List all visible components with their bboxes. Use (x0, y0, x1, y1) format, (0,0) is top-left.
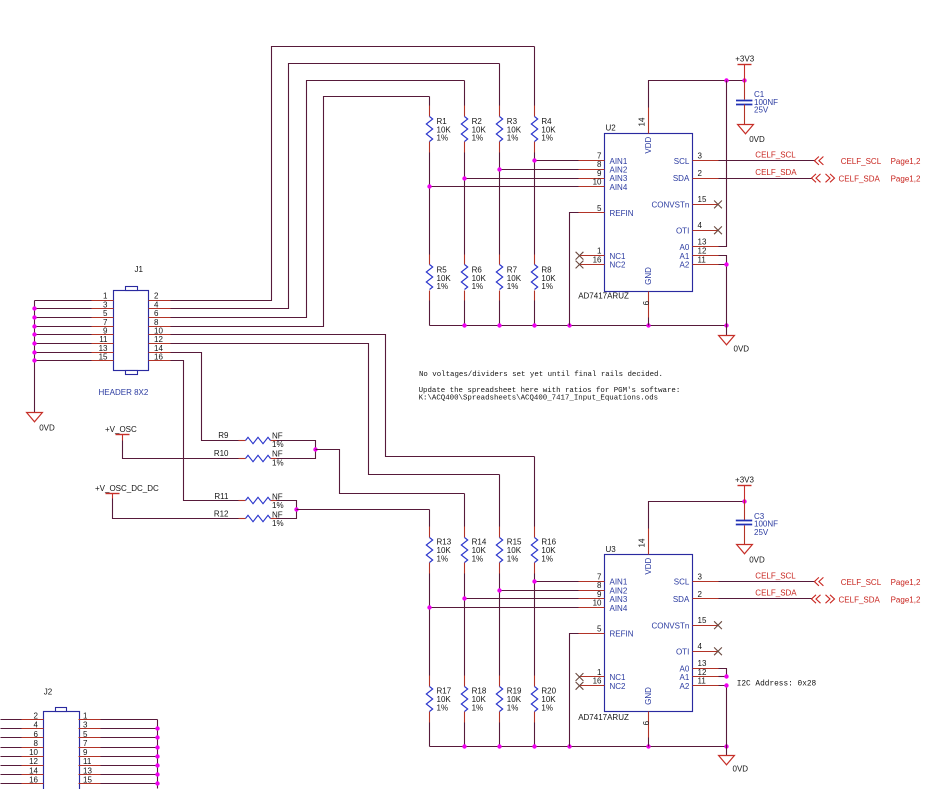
svg-text:8: 8 (597, 581, 602, 590)
junction node R11/R12 (294, 507, 298, 511)
wire divider tap to U2 AIN3 (465, 178, 579, 180)
U3 pin 10 AIN4 (579, 599, 628, 613)
junction node U3 AIN3 tap (462, 596, 466, 600)
U3 pin 8 AIN2 (579, 581, 628, 595)
U3 pin 1 NC1 (no connect) (576, 668, 626, 682)
svg-text:A0: A0 (680, 243, 690, 252)
resistor R17 10K 1% (426, 676, 451, 723)
svg-text:3: 3 (698, 572, 703, 581)
power symbol +V_OSC (105, 425, 137, 441)
svg-text:3: 3 (698, 152, 703, 161)
J1 pin 2 stub (149, 292, 171, 301)
J2 pin 9 stub (79, 748, 101, 757)
junction node U2 AIN1 tap (532, 158, 536, 162)
wire divider tap to U2 AIN2 (500, 169, 579, 171)
J1 pin 13 stub (92, 344, 114, 353)
svg-text:R11: R11 (214, 492, 229, 501)
U3 pin 7 AIN1 (579, 572, 628, 586)
svg-text:0VD: 0VD (734, 344, 750, 353)
svg-text:AD7417ARUZ: AD7417ARUZ (578, 292, 629, 301)
svg-text:1: 1 (597, 668, 602, 677)
svg-text:OTI: OTI (676, 226, 689, 235)
wire U3 VDD to +3V3 (649, 502, 745, 529)
svg-text:0VD: 0VD (733, 764, 749, 773)
svg-text:Page1,2: Page1,2 (891, 157, 921, 166)
svg-text:10: 10 (593, 178, 602, 187)
wire R10 right to join (277, 450, 316, 459)
J1 pin 3 stub (92, 300, 114, 309)
resistor R6 10K 1% (461, 255, 486, 301)
svg-text:5: 5 (597, 204, 602, 213)
wire U2 A2 to 0V rail (719, 265, 727, 326)
J2 pin 14 stub (22, 766, 44, 775)
svg-text:16: 16 (29, 775, 38, 784)
svg-text:6: 6 (642, 720, 651, 725)
U2 pin 4 OTI (no connect) (676, 221, 722, 235)
J2 pin 2 stub (22, 712, 44, 721)
resistor R16 10K 1% (531, 527, 556, 574)
U2 pin 9 AIN3 (579, 169, 628, 183)
wire R14/R18 column (464, 494, 466, 747)
wire J2 right bus vertical (157, 720, 159, 789)
svg-text:J2: J2 (44, 687, 53, 696)
wire R16/R20 column (534, 457, 536, 747)
svg-text:CELF_SDA: CELF_SDA (755, 168, 797, 177)
J1 pin 11 stub (92, 335, 114, 344)
wire divider tap to U3 AIN1 (535, 581, 579, 583)
svg-text:U2: U2 (606, 123, 617, 132)
J1 pin 1 stub (92, 292, 114, 301)
svg-text:1%: 1% (507, 282, 519, 291)
U3 pin 13 A0 (680, 659, 719, 673)
U3 pin 11 A2 (680, 677, 719, 691)
svg-text:25V: 25V (754, 528, 769, 537)
svg-text:AIN4: AIN4 (610, 183, 628, 192)
wire divider tap to U3 AIN3 (465, 598, 579, 600)
svg-text:1%: 1% (472, 554, 484, 563)
svg-text:15: 15 (83, 775, 92, 784)
wire top 0V rail (430, 325, 727, 327)
junction node U2 AIN4 tap (427, 184, 431, 188)
svg-text:GND: GND (644, 267, 653, 285)
svg-text:4: 4 (698, 642, 703, 651)
svg-text:SDA: SDA (673, 174, 690, 183)
wire R1/R5 column (429, 97, 431, 326)
svg-text:1%: 1% (272, 519, 284, 528)
wire J1 pin 6 to R2 column (171, 81, 465, 318)
wire J1 pin 4 to R3 column (171, 64, 500, 309)
junction dots on bottom 0V rail (462, 744, 728, 748)
wire U2 A1 to A2 junction (719, 256, 727, 265)
wire J2 left pins off page (1, 720, 22, 784)
svg-text:14: 14 (638, 117, 647, 126)
svg-text:CELF_SCL: CELF_SCL (755, 150, 796, 159)
U2 pin 1 NC1 (no connect) (576, 247, 626, 261)
svg-text:U3: U3 (606, 545, 617, 554)
junction node U3 AIN4 tap (427, 605, 431, 609)
svg-text:NC1: NC1 (610, 673, 627, 682)
J1 pin 15 stub (92, 353, 114, 362)
svg-text:AIN2: AIN2 (610, 166, 628, 175)
power symbol +3V3 (bottom) (735, 476, 754, 502)
off-page connector CELF_SDA (top) (812, 174, 921, 184)
svg-text:0VD: 0VD (749, 135, 765, 144)
ground 0VD below U3 (719, 747, 749, 774)
svg-text:13: 13 (99, 344, 108, 353)
svg-text:15: 15 (698, 195, 707, 204)
U2 pin 15 CONVSTn (no connect) (652, 195, 722, 209)
svg-text:1%: 1% (507, 554, 519, 563)
wire U2 GND pin to 0V rail (648, 318, 650, 326)
wire R11 right to join (277, 501, 297, 510)
U2 pin 10 AIN4 (579, 178, 628, 192)
wire divider tap to U3 AIN2 (500, 590, 579, 592)
svg-text:2: 2 (698, 590, 703, 599)
junction node U2 AIN2 tap (497, 167, 501, 171)
svg-text:9: 9 (597, 169, 602, 178)
U3 pin 12 A1 (680, 668, 719, 682)
J1 pin 4 stub (149, 300, 171, 309)
off-page connector CELF_SDA (bottom) (812, 595, 921, 605)
J2 pin 13 stub (79, 766, 101, 775)
svg-text:VDD: VDD (644, 558, 653, 575)
resistor R8 10K 1% (531, 255, 556, 301)
wire R15/R19 column (499, 475, 501, 747)
J1 pin 16 stub (149, 353, 171, 362)
svg-text:11: 11 (698, 255, 707, 264)
svg-text:1%: 1% (437, 704, 449, 713)
svg-text:12: 12 (698, 668, 707, 677)
wire U3 SDA net CELF_SDA (719, 598, 812, 600)
svg-text:AIN1: AIN1 (610, 157, 628, 166)
wire U3 A2 to 0V rail (719, 686, 727, 747)
svg-text:SCL: SCL (674, 157, 690, 166)
junction dots on J1 ground bus (32, 306, 36, 362)
svg-text:0VD: 0VD (749, 555, 765, 564)
wire J2 right pins to bus (101, 720, 158, 784)
svg-text:5: 5 (103, 309, 108, 318)
svg-text:R10: R10 (214, 449, 229, 458)
resistor R2 10K 1% (461, 106, 486, 153)
svg-text:2: 2 (698, 169, 703, 178)
svg-text:3: 3 (103, 300, 108, 309)
wire R11/R12 join to R13 column (297, 509, 430, 511)
wire +V_OSC_DC_DC to R12 (113, 499, 239, 519)
svg-text:AIN3: AIN3 (610, 595, 628, 604)
svg-text:1%: 1% (507, 704, 519, 713)
U3 pin 3 SCL (674, 572, 719, 586)
J2 pin 7 stub (79, 739, 101, 748)
resistor R19 10K 1% (496, 676, 522, 723)
svg-text:No voltages/dividers set yet u: No voltages/dividers set yet until final… (419, 371, 663, 379)
J1 pin 7 stub (92, 318, 114, 327)
svg-text:7: 7 (103, 318, 108, 327)
U2 pin 13 A0 (680, 238, 719, 252)
J1 pin 6 stub (149, 309, 171, 318)
op-amp-style IC U2 AD7417ARUZ body (605, 134, 693, 292)
svg-text:NF: NF (272, 450, 283, 459)
wire U2 SCL net CELF_SCL (719, 160, 816, 162)
svg-text:Page1,2: Page1,2 (891, 578, 921, 587)
svg-text:4: 4 (154, 300, 159, 309)
svg-text:A0: A0 (680, 664, 690, 673)
svg-text:CELF_SDA: CELF_SDA (839, 174, 881, 183)
svg-text:1%: 1% (472, 704, 484, 713)
svg-text:12: 12 (154, 335, 163, 344)
J2 pin 4 stub (22, 721, 44, 730)
resistor R1 10K 1% (426, 106, 451, 153)
U3 pin 5 REFIN (579, 624, 634, 638)
resistor R20 10K 1% (531, 676, 556, 723)
resistor R3 10K 1% (496, 106, 521, 153)
J2 pin 3 stub (79, 721, 101, 730)
junction node U3 A2 (724, 683, 728, 687)
note text about voltage dividers (419, 371, 681, 403)
wire ground bus vertical (34, 301, 36, 413)
resistor R18 10K 1% (461, 676, 487, 723)
svg-text:14: 14 (154, 344, 163, 353)
U2 pin 16 NC2 (no connect) (576, 255, 626, 269)
svg-text:10: 10 (29, 748, 38, 757)
svg-text:1%: 1% (472, 134, 484, 143)
U2 pin 3 SCL (674, 152, 719, 166)
U2 pin 8 AIN2 (579, 160, 628, 174)
svg-text:J1: J1 (135, 265, 144, 274)
wire U3 A1 stub join (719, 676, 727, 678)
svg-text:+V_OSC: +V_OSC (105, 425, 137, 434)
svg-text:Page1,2: Page1,2 (891, 175, 921, 184)
svg-text:AD7417ARUZ: AD7417ARUZ (578, 713, 629, 722)
svg-text:CELF_SCL: CELF_SCL (841, 578, 882, 587)
wire J1 pin 14 to R9 (171, 353, 239, 441)
svg-text:A2: A2 (680, 261, 690, 270)
svg-text:25V: 25V (754, 106, 769, 115)
ground 0VD below U2 (719, 326, 750, 354)
wire U2 REFIN to 0V rail (570, 213, 579, 326)
svg-text:1%: 1% (507, 134, 519, 143)
resistor R11 NF 1% (214, 492, 283, 510)
svg-text:16: 16 (593, 255, 602, 264)
svg-text:2: 2 (154, 292, 159, 301)
resistor R5 10K 1% (426, 255, 451, 301)
svg-text:7: 7 (597, 572, 602, 581)
svg-text:5: 5 (597, 624, 602, 633)
svg-text:I2C Address: 0x28: I2C Address: 0x28 (737, 680, 817, 688)
svg-text:1%: 1% (272, 458, 284, 467)
svg-text:REFIN: REFIN (610, 630, 634, 639)
wire R3/R7 column (499, 64, 501, 326)
wire J1 pin 10 to R16 column (171, 335, 535, 457)
wire bottom 0V rail (430, 746, 727, 748)
wire U3 A0 to A1 junction (719, 669, 727, 677)
wire R9 right to join (277, 441, 316, 450)
svg-text:AIN1: AIN1 (610, 578, 628, 587)
junction dot on U3 VDD net (742, 499, 746, 503)
svg-text:AIN2: AIN2 (610, 586, 628, 595)
svg-text:1%: 1% (541, 134, 553, 143)
U3 pin 4 OTI (no connect) (676, 642, 722, 656)
wire R13/R17 column (429, 510, 431, 747)
svg-text:7: 7 (597, 152, 602, 161)
power symbol +3V3 (top) (735, 55, 754, 81)
svg-text:4: 4 (34, 721, 39, 730)
wire U3 SCL net CELF_SCL (719, 581, 816, 583)
svg-text:1%: 1% (472, 282, 484, 291)
U3 pin 16 NC2 (no connect) (576, 677, 626, 691)
svg-text:15: 15 (698, 616, 707, 625)
J1 pin 12 stub (149, 335, 171, 344)
connector J1 HEADER 8X2 (114, 287, 149, 375)
svg-text:K:\ACQ400\Spreadsheets\ACQ400_: K:\ACQ400\Spreadsheets\ACQ400_7417_Input… (419, 395, 658, 403)
svg-text:1%: 1% (437, 554, 449, 563)
svg-text:R9: R9 (218, 431, 229, 440)
J1 pin 5 stub (92, 309, 114, 318)
J2 pin 8 stub (22, 739, 44, 748)
svg-text:13: 13 (698, 238, 707, 247)
svg-text:1%: 1% (272, 440, 284, 449)
U3 pin 15 CONVSTn (no connect) (652, 616, 722, 630)
svg-text:+3V3: +3V3 (735, 476, 754, 485)
wire R2/R6 column (464, 81, 466, 326)
U3 pin 2 SDA (673, 590, 719, 604)
wire divider tap to U3 AIN4 (430, 607, 579, 609)
svg-text:1: 1 (103, 292, 108, 301)
svg-text:1: 1 (83, 712, 88, 721)
svg-text:A1: A1 (680, 673, 690, 682)
svg-text:CELF_SCL: CELF_SCL (755, 571, 796, 580)
svg-text:1%: 1% (272, 501, 284, 510)
wire R4/R8 column (534, 47, 536, 326)
svg-text:10: 10 (154, 327, 163, 336)
U2 pin 7 AIN1 (579, 152, 628, 166)
svg-text:1%: 1% (541, 704, 553, 713)
op-amp-style IC U3 AD7417ARUZ body (605, 555, 693, 712)
svg-text:+3V3: +3V3 (735, 55, 754, 64)
wire +3V3 rail to U2 A0 (719, 81, 727, 247)
ground 0VD below J1 (27, 413, 55, 433)
capacitor C3 100NF 25V (736, 502, 778, 545)
off-page connector CELF_SCL (top) (814, 157, 921, 167)
resistor R15 10K 1% (496, 527, 522, 574)
junction node R9/R10 (313, 447, 317, 451)
wire U3 REFIN to 0V rail (570, 634, 579, 747)
junction node U2 AIN3 tap (462, 176, 466, 180)
svg-text:12: 12 (29, 757, 38, 766)
svg-text:16: 16 (154, 353, 163, 362)
svg-text:3: 3 (83, 721, 88, 730)
svg-text:+V_OSC_DC_DC: +V_OSC_DC_DC (95, 484, 159, 493)
svg-text:10: 10 (593, 599, 602, 608)
junction node U3 AIN1 tap (532, 579, 536, 583)
svg-text:1%: 1% (437, 134, 449, 143)
wire J1 pin 2 to R4 column (171, 47, 535, 301)
svg-text:5: 5 (83, 730, 88, 739)
svg-text:AIN3: AIN3 (610, 174, 628, 183)
U2 pin 11 A2 (680, 255, 719, 269)
resistor R4 10K 1% (531, 106, 556, 153)
J2 pin 1 stub (79, 712, 101, 721)
svg-text:A2: A2 (680, 682, 690, 691)
U2 pin 6 GND (642, 267, 653, 318)
J1 pin 8 stub (149, 318, 171, 327)
resistor R14 10K 1% (461, 527, 487, 574)
wire divider tap to U2 AIN1 (535, 160, 579, 162)
wire U3 GND pin to 0V rail (648, 738, 650, 747)
svg-text:11: 11 (698, 677, 707, 686)
svg-text:6: 6 (34, 730, 39, 739)
wire +V_OSC to R10 (123, 441, 239, 459)
J2 pin 15 stub (79, 775, 101, 784)
svg-text:11: 11 (83, 757, 92, 766)
svg-text:0VD: 0VD (39, 424, 55, 433)
junction node U2 A2 (724, 262, 728, 266)
svg-text:11: 11 (99, 335, 108, 344)
wire J1 pin 12 to R15 column (171, 344, 500, 475)
svg-text:1%: 1% (541, 282, 553, 291)
resistor R13 10K 1% (426, 527, 451, 574)
svg-text:13: 13 (698, 659, 707, 668)
resistor R12 NF 1% (214, 510, 284, 528)
connector J2 HEADER 8X2 (44, 708, 80, 789)
svg-text:9: 9 (597, 590, 602, 599)
svg-text:AIN4: AIN4 (610, 604, 628, 613)
svg-text:CELF_SCL: CELF_SCL (841, 157, 882, 166)
resistor R10 NF 1% (214, 449, 284, 467)
svg-text:R12: R12 (214, 510, 229, 519)
wire R12 right to join (277, 510, 297, 519)
svg-text:CELF_SDA: CELF_SDA (755, 589, 797, 598)
U2 pin 2 SDA (673, 169, 719, 183)
svg-text:NC2: NC2 (610, 261, 627, 270)
svg-text:8: 8 (154, 318, 159, 327)
resistor R7 10K 1% (496, 255, 521, 301)
J2 pin 6 stub (22, 730, 44, 739)
svg-text:12: 12 (698, 247, 707, 256)
ground 0VD below C3 (737, 545, 765, 565)
svg-text:14: 14 (638, 538, 647, 547)
J2 pin 5 stub (79, 730, 101, 739)
svg-text:SDA: SDA (673, 595, 690, 604)
svg-text:Update the spreadsheet here wi: Update the spreadsheet here with ratios … (419, 387, 681, 395)
wire J1 pin 16 to R11 (171, 361, 239, 501)
junction dots on U2 VDD net (724, 78, 746, 82)
U2 pin 5 REFIN (579, 204, 634, 218)
svg-text:8: 8 (597, 160, 602, 169)
svg-text:CONVSTn: CONVSTn (652, 621, 690, 630)
U3 pin 6 GND (642, 687, 653, 738)
svg-text:16: 16 (593, 677, 602, 686)
svg-text:GND: GND (644, 687, 653, 705)
wire U2 VDD to +3V3 (649, 81, 745, 108)
svg-text:NF: NF (272, 431, 283, 440)
svg-text:HEADER 8X2: HEADER 8X2 (99, 388, 149, 397)
J2 pin 11 stub (79, 757, 101, 766)
junction node U3 AIN2 tap (497, 588, 501, 592)
svg-text:OTI: OTI (676, 647, 689, 656)
wire divider tap to U2 AIN4 (430, 186, 579, 188)
J2 pin 12 stub (22, 757, 44, 766)
svg-text:4: 4 (698, 221, 703, 230)
wire J1 left pins to ground bus (35, 301, 92, 361)
junction dots on top 0V rail (462, 323, 728, 327)
svg-text:1%: 1% (437, 282, 449, 291)
U2 pin 14 VDD (638, 108, 653, 154)
svg-text:9: 9 (103, 327, 108, 336)
svg-text:9: 9 (83, 748, 88, 757)
J1 pin 9 stub (92, 327, 114, 336)
junction node U3 A1 (724, 674, 728, 678)
svg-text:NC1: NC1 (610, 252, 627, 261)
